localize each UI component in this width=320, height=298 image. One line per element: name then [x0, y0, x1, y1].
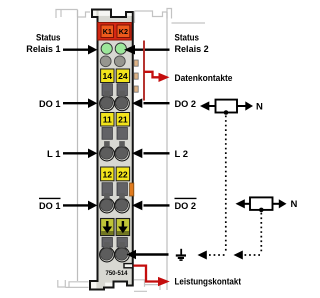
terminal label 11: [101, 113, 114, 127]
arrow earth clamp: [127, 250, 169, 260]
svg-text:21: 21: [118, 115, 128, 125]
svg-text:DO 1: DO 1: [39, 201, 61, 212]
svg-text:K2: K2: [119, 27, 128, 36]
arrow to DO 2 label: [200, 101, 209, 110]
svg-text:Datenkontakte: Datenkontakte: [175, 73, 233, 84]
clamp 8 (earth row) right: [115, 242, 130, 262]
release lever left with down arrow: [101, 219, 114, 236]
svg-text:14: 14: [103, 71, 113, 81]
svg-text:750-514: 750-514: [106, 270, 128, 277]
power contact slot: [124, 264, 133, 268]
svg-text:Relais 1: Relais 1: [26, 44, 61, 55]
ground symbol: [176, 249, 186, 260]
svg-text:L 2: L 2: [175, 149, 189, 160]
svg-text:DO 2: DO 2: [175, 99, 197, 110]
arrow L 2: [132, 149, 170, 159]
ghost neighbour right bottom foot: [134, 280, 160, 292]
ghost neighbour left bottom foot: [58, 280, 66, 287]
arrow DO 2: [132, 98, 170, 108]
wire entry square row B right: [117, 128, 127, 140]
LED 3 (off gray): [100, 56, 111, 67]
data contact tab 1 (side): [134, 60, 138, 66]
bottom foot hollow: [91, 282, 96, 288]
clamp 1 (DO row) left: [100, 91, 115, 111]
svg-text:DO 2: DO 2: [175, 201, 197, 212]
svg-text:N: N: [256, 101, 263, 112]
wire entry square row D right: [117, 238, 127, 248]
ghost neighbour left vertical edge: [77, 10, 79, 281]
svg-text:DO 1: DO 1: [39, 99, 61, 110]
red data contacts line: [143, 41, 145, 101]
svg-text:K1: K1: [103, 27, 112, 36]
svg-text:24: 24: [118, 71, 128, 81]
coil box K1: [216, 100, 238, 113]
relay coil K1 circuit: [200, 100, 263, 115]
arrow DO-bar 1: [63, 201, 97, 211]
ghost neighbour module right top profile: [135, 9, 206, 24]
clamp 3 (L row) left: [100, 141, 115, 161]
junction node: [259, 208, 264, 213]
status LED 2 (green): [115, 43, 126, 54]
terminal label 12: [101, 167, 114, 181]
arrow Status Relais 2: [124, 45, 170, 55]
top notch hollow: [93, 11, 96, 16]
data contact tab 2 (side): [134, 73, 138, 79]
wire entry square row C right: [117, 183, 127, 196]
wire to N: [237, 105, 246, 107]
svg-text:12: 12: [103, 169, 113, 179]
power jumper contact (orange, side): [130, 183, 134, 196]
svg-text:11: 11: [103, 115, 112, 125]
status LED 1 (green): [101, 43, 112, 54]
clamp 6 (DO-bar row) right: [115, 193, 130, 213]
svg-text:Status: Status: [175, 33, 200, 44]
svg-text:Relais 2: Relais 2: [175, 44, 209, 55]
dotted wire from relay K2 to earth: [234, 213, 262, 260]
coil box K2: [250, 197, 273, 210]
release lever right with down arrow: [116, 219, 129, 236]
relay coil K2 circuit: [236, 197, 298, 212]
data contact tab 3 (side): [134, 86, 138, 92]
clamp 2 (DO row) right: [115, 91, 130, 111]
svg-text:Leistungskontakt: Leistungskontakt: [175, 277, 242, 288]
wire entry square row C left: [102, 183, 112, 196]
terminal label 24: [116, 69, 129, 83]
terminal label 22: [116, 167, 129, 181]
wire entry square row B left: [102, 128, 112, 140]
svg-text:N: N: [291, 199, 298, 210]
arrow to DO-bar 2 label: [236, 199, 245, 208]
clamp 5 (DO-bar row) left: [100, 193, 115, 213]
clamp 7 (earth row) left: [100, 242, 115, 262]
wire entry square row A right: [117, 84, 127, 96]
terminal label 14: [101, 69, 114, 83]
red arrow Leistungskontakt: [134, 266, 170, 287]
wire entry square row A left: [102, 84, 112, 96]
svg-text:Status: Status: [36, 33, 61, 44]
wire entry square row D left: [102, 238, 112, 248]
module 750-514 body outline: [90, 10, 133, 290]
ghost neighbour right vertical edge: [166, 12, 168, 290]
arrow DO 1: [63, 98, 97, 108]
arrow Status Relais 1: [63, 45, 97, 55]
junction node: [224, 110, 229, 115]
arrow L 1: [63, 149, 97, 159]
svg-text:22: 22: [118, 169, 128, 179]
red arrow Datenkontakte: [144, 72, 170, 82]
LED 4 (off gray): [114, 56, 125, 67]
ghost neighbour module left top profile: [56, 10, 90, 19]
svg-text:L 1: L 1: [47, 149, 61, 160]
clamp 4 (L row) right: [115, 141, 130, 161]
arrow DO-bar 2: [132, 201, 170, 211]
terminal label 21: [116, 113, 129, 127]
relay block K1 K2: [98, 23, 132, 41]
dotted wire from relay K1 to earth: [198, 116, 226, 260]
wire to N: [273, 203, 280, 205]
